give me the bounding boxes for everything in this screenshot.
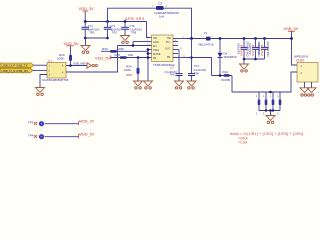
wire EN/FB row — [111, 57, 147, 59]
inductor L2 — [152, 2, 180, 19]
svg-text:DNP: DNP — [126, 73, 132, 77]
capacitor C64 — [236, 37, 249, 59]
capacitor C70 — [121, 22, 142, 36]
resistor R26 — [115, 53, 134, 59]
svg-text:L5: L5 — [204, 31, 208, 35]
svg-text:TR2: TR2 — [112, 30, 118, 34]
svg-text:FB: FB — [153, 57, 157, 60]
pin stubs U3 right — [173, 39, 187, 58]
pin stubs U3 left — [147, 42, 152, 58]
ground under C74/C71 — [81, 46, 90, 54]
capacitor C73 — [188, 39, 206, 82]
wire resistor bank bottom — [259, 109, 280, 115]
svg-text:DNP TR8: DNP TR8 — [239, 44, 243, 56]
svg-text:100K: 100K — [124, 68, 131, 72]
ground CN10 shield left — [300, 88, 309, 93]
resistor R42 — [263, 92, 267, 116]
ground under resistor bank — [266, 116, 275, 124]
net label VDD_3V — [79, 120, 95, 126]
svg-text:SW: SW — [167, 37, 172, 40]
node FB junction — [190, 56, 193, 59]
ground shield circles — [301, 94, 314, 96]
ground under U1 — [36, 88, 45, 96]
ground under R34 — [134, 81, 143, 89]
wire L2 left to rail corner — [108, 8, 157, 21]
wire USB_VBUS — [66, 61, 87, 66]
svg-text:TP3: TP3 — [28, 120, 34, 124]
svg-text:EN: EN — [153, 45, 157, 48]
transistor U1 esd body — [47, 60, 66, 78]
resistor R43 — [270, 92, 274, 116]
node bus junction — [269, 91, 272, 94]
svg-text:DNP TR8: DNP TR8 — [260, 44, 264, 56]
power port VDD_5V (mid) — [95, 55, 111, 60]
capacitor C65 — [248, 37, 261, 59]
svg-text:U3: U3 — [170, 66, 174, 70]
inductor L5 bead — [198, 31, 214, 47]
wire connector 5V feed — [292, 39, 298, 66]
ground CN10 shield right — [307, 88, 316, 93]
svg-text:USB_D_N USB_RX: USB_D_N USB_RX — [2, 69, 29, 73]
svg-text:TR8: TR8 — [131, 31, 137, 35]
pin numbers U3 — [147, 36, 186, 58]
svg-text:3C23B: 3C23B — [221, 78, 230, 82]
wire rail to VIN pin — [147, 22, 152, 38]
resistor R34 — [124, 58, 140, 82]
svg-text:VDD_5V: VDD_5V — [64, 41, 80, 46]
svg-text:DNP TR8: DNP TR8 — [251, 44, 255, 56]
svg-text:10K: 10K — [128, 53, 133, 57]
svg-text:APB 3R3: APB 3R3 — [125, 17, 144, 21]
wire VDD_3V stem — [84, 11, 86, 21]
wire port1 to U1 — [34, 64, 47, 66]
svg-text:TR8: TR8 — [194, 71, 200, 75]
svg-text:USB_5V: USB_5V — [284, 26, 299, 31]
wire U1 gnd pin — [40, 75, 47, 88]
svg-text:LQM2HPN1R0MJ0L: LQM2HPN1R0MJ0L — [154, 11, 180, 15]
svg-text:TP4: TP4 — [28, 133, 34, 137]
svg-text:VDD_5V: VDD_5V — [80, 133, 95, 137]
svg-text:1uH: 1uH — [159, 14, 164, 18]
svg-text:0.1uF/16V: 0.1uF/16V — [194, 68, 207, 72]
svg-text:100K: 100K — [117, 47, 124, 51]
power port USB_5V — [284, 26, 299, 40]
wire cap bottoms — [84, 37, 109, 46]
svg-text:SMAZ5V6: SMAZ5V6 — [224, 55, 238, 59]
capacitor C66 — [257, 37, 270, 59]
svg-text:SCWRC0805DPT05: SCWRC0805DPT05 — [42, 78, 69, 82]
op-amp U3 body — [152, 35, 174, 62]
wire 3.3V rail — [85, 21, 147, 23]
ground under x148 — [144, 81, 153, 89]
svg-text:TR8: TR8 — [170, 73, 175, 77]
resistor R31 — [221, 70, 230, 82]
wire L2 right down to SW rail — [164, 8, 192, 38]
wire tie vertical x148 — [147, 48, 150, 81]
capacitor C71 — [104, 22, 122, 39]
port USB_D_P — [0, 63, 34, 68]
ground rotated right — [87, 63, 97, 68]
node zener tap — [219, 37, 222, 40]
svg-text:OUT: OUT — [165, 48, 171, 51]
svg-text:=1.09: =1.09 — [238, 140, 247, 144]
svg-text:USB_D_P USB_TX: USB_D_P USB_TX — [2, 64, 28, 68]
connector CN10 — [294, 54, 318, 82]
svg-text:USB_VB5: USB_VB5 — [73, 61, 86, 65]
wire 5V output rail — [187, 38, 292, 40]
svg-text:R10: R10 — [223, 70, 229, 74]
svg-text:TR2: TR2 — [90, 30, 96, 34]
port USB_D_N — [0, 68, 33, 73]
svg-text:FB: FB — [167, 56, 171, 59]
testpoint TP4 — [28, 133, 79, 139]
ground under C73 — [187, 81, 196, 89]
wire zener bottom row — [212, 74, 233, 77]
wire cap bank bottom — [243, 58, 265, 64]
wire FB to divider — [187, 58, 212, 76]
testpoint TP3 — [28, 120, 79, 126]
diode D4 zener — [218, 39, 238, 76]
resistor R19 — [57, 46, 72, 65]
svg-text:GND: GND — [153, 41, 159, 44]
capacitor C72 — [165, 50, 183, 82]
capacitor C74 — [82, 22, 100, 39]
svg-text:Itotal = U/(1/R1) + [1/R2] + [: Itotal = U/(1/R1) + [1/R2] + [1/R3] + [1… — [230, 132, 303, 136]
wire VBUS riser to EN — [66, 46, 118, 73]
wire port2 to U1 — [33, 69, 47, 71]
svg-text:C73: C73 — [194, 64, 199, 68]
svg-text:CN10: CN10 — [296, 58, 304, 62]
power port VDD_3V — [79, 6, 95, 11]
node R34 tap — [137, 56, 140, 59]
net label VDD_5V — [79, 133, 95, 139]
note text — [230, 132, 303, 144]
svg-text:VIN: VIN — [153, 37, 157, 40]
svg-text:C66 22uF/25: C66 22uF/25 — [266, 41, 270, 57]
svg-text:MODE: MODE — [153, 53, 161, 56]
wire to gnd bus — [232, 72, 297, 92]
svg-text:VDD_3V: VDD_3V — [80, 120, 95, 124]
resistor R44 — [277, 92, 281, 116]
ground under cap bank — [240, 64, 249, 72]
svg-text:L2: L2 — [159, 2, 163, 6]
svg-text:VDD_5V: VDD_5V — [95, 55, 111, 60]
resistor R41 — [256, 92, 260, 116]
svg-text:100K: 100K — [57, 56, 64, 60]
wire CN10 shield pins — [305, 82, 312, 88]
svg-text:R30: R30 — [102, 47, 108, 51]
svg-text:XBL1A4716: XBL1A4716 — [198, 43, 214, 47]
ground under C70 — [121, 36, 130, 44]
svg-text:VSEL: VSEL — [153, 49, 160, 52]
svg-text:VDD_3V: VDD_3V — [79, 6, 95, 11]
power port VDD_5V (left) — [64, 41, 80, 46]
resistor R30 — [101, 47, 148, 53]
svg-text:PG: PG — [166, 41, 170, 44]
ground under C72 — [175, 81, 184, 89]
node SW junction — [190, 37, 193, 40]
wire VBUS feed to EN pins — [118, 42, 152, 47]
node rail junctions — [84, 20, 127, 23]
